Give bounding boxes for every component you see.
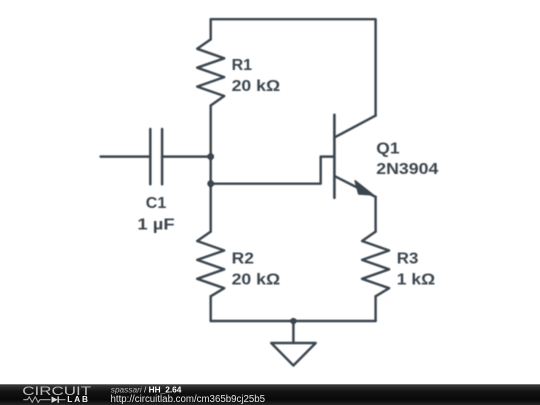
wire capacitor to node: [162, 155, 211, 157]
ground: [271, 343, 316, 366]
node B dot: [207, 180, 214, 187]
wire ground stub: [292, 321, 294, 343]
svg-text:LAB: LAB: [67, 395, 90, 404]
svg-text:http://circuitlab.com/cm365b9c: http://circuitlab.com/cm365b9cj25b5: [111, 394, 266, 405]
logo diode: [52, 396, 66, 403]
svg-text:R2: R2: [232, 250, 254, 267]
node GND dot: [290, 318, 296, 324]
svg-text:20 kΩ: 20 kΩ: [232, 78, 281, 95]
svg-text:1 kΩ: 1 kΩ: [397, 271, 435, 288]
svg-text:2N3904: 2N3904: [376, 161, 438, 178]
wire emitter to R3: [374, 197, 376, 232]
svg-text:R1: R1: [232, 57, 253, 74]
wire R1 to R2: [209, 106, 211, 232]
capacitor C1: [150, 129, 162, 184]
wire capacitor input: [101, 155, 151, 157]
transistor Q1: [334, 115, 375, 198]
wire bottom rail: [211, 320, 376, 322]
svg-text:1 µF: 1 µF: [137, 217, 174, 234]
svg-text:R3: R3: [397, 250, 419, 267]
logo waveform resistor: [23, 397, 50, 402]
footer bar: [0, 384, 540, 405]
svg-text:Q1: Q1: [376, 140, 399, 157]
wire R2 to rail: [209, 296, 211, 321]
resistor R1: [197, 39, 224, 105]
node A dot: [207, 153, 214, 160]
svg-text:20 kΩ: 20 kΩ: [232, 271, 281, 288]
resistor R3: [362, 232, 389, 297]
wire top rail: [211, 19, 376, 115]
wire R3 to rail: [374, 296, 376, 321]
svg-text:C1: C1: [146, 195, 167, 212]
wire base: [211, 157, 334, 184]
resistor R2: [197, 232, 224, 297]
